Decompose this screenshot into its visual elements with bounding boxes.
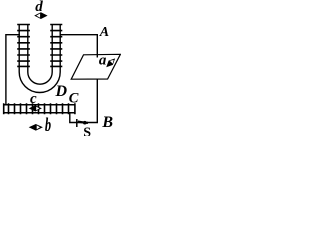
svg-text:D: D <box>55 83 68 100</box>
svg-text:B: B <box>101 114 113 131</box>
svg-text:c: c <box>30 91 37 107</box>
svg-text:A: A <box>99 25 109 40</box>
svg-text:S: S <box>83 125 91 136</box>
svg-text:d: d <box>35 0 43 15</box>
svg-text:C: C <box>69 91 79 107</box>
svg-text:b: b <box>45 116 51 136</box>
svg-text:a: a <box>99 53 107 69</box>
